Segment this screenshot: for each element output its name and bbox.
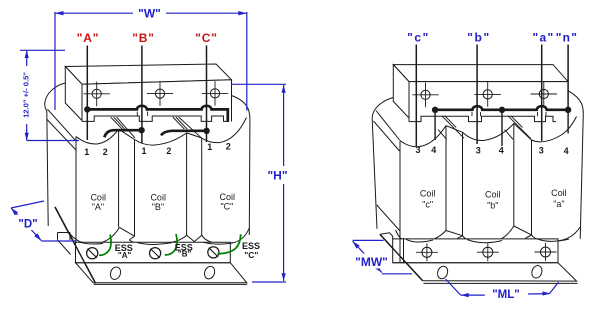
coil c left edge xyxy=(399,141,401,263)
dimension 12.0 line xyxy=(26,50,28,140)
base right strip front face xyxy=(393,239,558,263)
dimension MW bottom extension xyxy=(382,273,412,275)
coil c back shoulder arc xyxy=(372,98,393,120)
flange oval slot 2 xyxy=(203,265,217,280)
junction dot A xyxy=(84,106,90,112)
svg-text:1: 1 xyxy=(207,142,212,152)
dimension H bottom extension xyxy=(252,281,286,283)
bracket c fold diagonal D2 xyxy=(374,121,400,151)
coil b back rim slant in gap xyxy=(446,126,463,133)
flange thickness edge xyxy=(94,283,248,285)
coil A right edge xyxy=(118,129,120,227)
dimension H text xyxy=(266,167,289,182)
coil c back-left silhouette xyxy=(372,120,377,229)
dimension ML right leader xyxy=(528,282,559,294)
svg-text:"C": "C" xyxy=(220,201,233,211)
junction dot n xyxy=(565,107,571,113)
svg-text:"n": "n" xyxy=(556,30,579,44)
coil c bottom rim xyxy=(396,230,447,242)
dimension MW text xyxy=(353,254,390,269)
green ESS wire C xyxy=(218,234,241,253)
ESS screw B xyxy=(150,248,161,259)
svg-text:3: 3 xyxy=(476,146,481,156)
bus bar A with crossover bumps xyxy=(87,106,228,122)
screw terminal c xyxy=(421,90,430,99)
svg-text:3: 3 xyxy=(539,146,544,156)
dimension D top extension xyxy=(11,201,44,208)
svg-text:"W": "W" xyxy=(138,7,161,21)
bracket c fold diagonal D3 xyxy=(377,205,400,231)
bus link A2-B1 xyxy=(104,130,141,137)
coil C right silhouette xyxy=(248,120,251,235)
dimension H line xyxy=(283,85,285,281)
svg-text:2: 2 xyxy=(103,147,108,157)
svg-text:Coil: Coil xyxy=(485,190,501,200)
dimension D line xyxy=(11,208,41,241)
base right flange xyxy=(393,263,577,281)
gap b-a bottom link xyxy=(514,226,532,235)
dimension H top extension xyxy=(231,83,286,85)
base right step xyxy=(380,233,393,239)
coil A back shoulder arc xyxy=(45,83,65,111)
coil a top rim xyxy=(532,117,577,142)
svg-text:"A": "A" xyxy=(92,202,104,212)
svg-text:Coil: Coil xyxy=(551,188,567,198)
svg-text:"c": "c" xyxy=(407,30,430,44)
channel B-C hatch xyxy=(173,117,202,138)
screw terminal b xyxy=(483,90,492,99)
channel c-b hatch xyxy=(438,116,464,140)
screw terminal 2 on block xyxy=(155,89,164,98)
block right tab verticals xyxy=(472,112,546,116)
coil a right silhouette xyxy=(580,114,583,239)
screw terminal 3 on block xyxy=(210,89,219,98)
svg-text:1: 1 xyxy=(84,147,89,157)
base left diagonal plate edge xyxy=(55,207,96,283)
RIGHT-UNIT xyxy=(372,45,583,284)
coil a back rim slant in gap xyxy=(514,123,532,140)
terminal block left face xyxy=(65,67,82,121)
bracket fold diagonal D1 xyxy=(47,109,76,141)
green ESS wire B xyxy=(165,234,177,255)
lead wire C xyxy=(206,46,208,143)
svg-text:"C": "C" xyxy=(195,31,217,45)
svg-text:3: 3 xyxy=(415,145,420,155)
svg-text:"a": "a" xyxy=(553,199,564,209)
base left step xyxy=(58,233,71,255)
screw 1 crosshair xyxy=(84,82,110,107)
green ESS wire A xyxy=(99,235,111,256)
svg-text:"MW": "MW" xyxy=(355,255,388,269)
junction dot B xyxy=(138,127,144,133)
svg-text:"B": "B" xyxy=(178,250,192,259)
TEXT-LAYER xyxy=(77,30,579,260)
coil A top rim xyxy=(76,129,119,144)
coil a right shoulder arc xyxy=(568,90,584,113)
coil A left edge xyxy=(75,137,77,263)
neutral bus bar xyxy=(435,106,568,110)
coil C back rim slant in gap xyxy=(187,133,202,138)
screw 3 crosshair xyxy=(202,81,228,106)
svg-text:"H": "H" xyxy=(267,169,287,183)
svg-text:2: 2 xyxy=(166,146,171,156)
svg-text:Coil: Coil xyxy=(150,192,166,202)
coil a bottom rim xyxy=(526,227,581,241)
coil b right edge xyxy=(513,123,515,226)
coil b bottom rim xyxy=(457,226,514,243)
coil C top rim xyxy=(202,118,247,143)
svg-text:"A": "A" xyxy=(77,31,99,45)
terminal block right left face xyxy=(393,65,409,118)
bus drop to c4 xyxy=(434,110,436,140)
terminal block front face xyxy=(82,80,232,118)
screw terminal 1 on block xyxy=(92,89,101,98)
base screw c xyxy=(422,247,432,257)
right flange thickness edge xyxy=(424,282,578,284)
coil c right edge xyxy=(445,126,447,231)
dimension W line xyxy=(55,12,247,14)
bus drop to b4 xyxy=(501,110,503,146)
coil A bottom rim xyxy=(65,227,120,244)
svg-text:"B": "B" xyxy=(132,31,154,45)
coil bottom dips over strip xyxy=(80,242,233,244)
coil B top rim xyxy=(135,133,187,145)
block tab verticals xyxy=(137,112,147,117)
svg-text:2: 2 xyxy=(226,142,231,152)
base screw b xyxy=(483,247,493,257)
base right diagonal over strip xyxy=(380,234,423,280)
svg-text:Coil: Coil xyxy=(220,192,236,202)
screw 2 crosshair xyxy=(147,81,173,106)
coil B right edge xyxy=(186,133,188,235)
screw terminal a xyxy=(539,89,548,98)
terminal block right front face xyxy=(409,82,568,118)
dimension 12.0 top extension xyxy=(20,49,65,51)
coil B left edge xyxy=(134,140,136,237)
svg-text:1: 1 xyxy=(141,146,146,156)
coil c edge over strip xyxy=(400,239,404,263)
lead wire b xyxy=(476,45,478,145)
right flange oval 1 xyxy=(436,265,450,280)
dimension MW top extension xyxy=(353,239,384,241)
lead wire A xyxy=(86,46,88,141)
gap A-B bottom link xyxy=(120,227,135,236)
junction dot C xyxy=(203,128,209,134)
gap c-b bottom link xyxy=(446,231,463,236)
coil b top rim xyxy=(463,123,514,140)
svg-text:4: 4 xyxy=(499,146,504,156)
svg-text:"b": "b" xyxy=(487,200,498,210)
coil A back-left silhouette line xyxy=(47,111,48,226)
svg-text:"C": "C" xyxy=(244,250,258,260)
svg-text:4: 4 xyxy=(431,145,436,155)
bus drop to a4 xyxy=(567,110,569,134)
svg-text:Coil: Coil xyxy=(420,188,436,198)
lead wire B xyxy=(141,46,143,144)
dimension 12.0 bottom extension xyxy=(27,140,79,142)
lead wire c xyxy=(415,45,417,147)
dimension MW line xyxy=(353,241,382,272)
channel b-a hatch xyxy=(505,116,532,140)
ESS screw A xyxy=(87,248,98,259)
coil c top rim xyxy=(400,126,446,147)
coil a left edge xyxy=(531,140,533,235)
block right stepped bottom edge xyxy=(409,116,556,121)
coil c inner upright xyxy=(403,238,405,263)
coil C front shoulder arc right xyxy=(232,96,250,121)
base flange plate xyxy=(76,263,247,283)
bus link B2-C1 xyxy=(161,131,207,136)
bracket c fold diagonal D1 xyxy=(376,111,400,141)
dimension W extension right xyxy=(246,12,248,111)
gap B-C bottom V xyxy=(187,235,202,241)
flange oval slot 1 xyxy=(109,266,123,281)
block front face stepped bottom edge xyxy=(82,116,228,121)
junction dot b4 xyxy=(499,107,505,113)
channel A-B hatch xyxy=(111,117,135,138)
coil C left edge xyxy=(201,138,203,235)
svg-text:4: 4 xyxy=(564,146,569,156)
svg-text:"A": "A" xyxy=(118,251,132,260)
right coil bottom dips over strip xyxy=(406,239,569,243)
svg-text:"ML": "ML" xyxy=(492,289,520,301)
lead wire n xyxy=(567,45,569,110)
base strip front face xyxy=(76,242,231,263)
dimension ML left leader xyxy=(446,279,485,295)
coil B back rim slant in gap xyxy=(119,129,135,139)
dimension W extension left xyxy=(54,12,56,110)
svg-text:12.0" +/- 0.5": 12.0" +/- 0.5" xyxy=(21,72,30,118)
base right diagonal plate edge xyxy=(380,234,423,280)
lead wire a xyxy=(541,45,543,142)
right flange oval 2 xyxy=(530,264,544,279)
svg-text:"b": "b" xyxy=(467,30,491,44)
bracket fold diagonal D2 xyxy=(47,119,76,150)
junction dot c4 xyxy=(432,107,438,113)
coil B bottom rim xyxy=(129,235,186,244)
coil b left edge xyxy=(462,132,464,235)
svg-text:"D": "D" xyxy=(18,219,37,231)
svg-text:Coil: Coil xyxy=(90,192,106,202)
svg-text:"a": "a" xyxy=(533,30,555,44)
coil C bottom rim xyxy=(202,228,250,244)
terminal block right top face xyxy=(393,65,568,82)
dimension D text xyxy=(17,215,40,230)
terminal block top face xyxy=(65,64,231,84)
LEFT-UNIT xyxy=(45,46,250,285)
dimension D bottom extension xyxy=(41,240,75,242)
base left diagonal over strip xyxy=(55,207,96,283)
svg-text:"B": "B" xyxy=(152,202,164,212)
svg-text:"c": "c" xyxy=(422,199,433,209)
ESS screw C xyxy=(208,247,219,258)
base screw a xyxy=(541,247,551,257)
